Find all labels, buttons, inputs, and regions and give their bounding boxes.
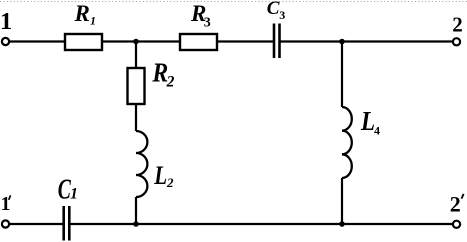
label 2' (450, 192, 461, 217)
label R3 (190, 1, 211, 31)
label L4 (360, 108, 380, 138)
wire (217, 40, 273, 42)
label C3 (267, 0, 286, 22)
svg-text:1: 1 (90, 14, 96, 28)
svg-text:3: 3 (204, 15, 211, 30)
svg-text:1: 1 (0, 8, 12, 35)
wire (10, 223, 64, 225)
terminal 1' (2, 220, 9, 227)
prime of 2' (462, 194, 464, 199)
svg-text:4: 4 (374, 124, 380, 138)
resistor R3 (180, 34, 217, 50)
inductor L2 (136, 131, 147, 197)
wire (135, 104, 137, 131)
node D (339, 221, 345, 227)
svg-text:L: L (153, 162, 167, 191)
label L2 (153, 162, 174, 191)
label C1 (58, 174, 78, 205)
svg-text:C: C (267, 0, 280, 19)
capacitor C1 (64, 206, 70, 241)
capacitor C3 (274, 24, 280, 59)
svg-text:1: 1 (1, 194, 11, 215)
terminal 1 (2, 38, 9, 45)
wire (341, 178, 343, 224)
svg-text:2: 2 (166, 73, 175, 90)
svg-text:R: R (74, 1, 90, 26)
inductor L4 (342, 107, 352, 178)
label R1 (74, 1, 97, 28)
resistor R2 (128, 68, 145, 104)
svg-text:2: 2 (452, 13, 463, 37)
wire (70, 223, 452, 225)
prime of 1' (9, 195, 11, 200)
resistor R1 (65, 34, 102, 50)
node B (339, 39, 345, 45)
terminal 2' (453, 221, 460, 228)
svg-text:1: 1 (70, 186, 78, 203)
svg-text:3: 3 (279, 8, 285, 22)
wire (135, 197, 137, 224)
svg-text:L: L (360, 108, 375, 137)
node C (133, 221, 139, 227)
terminal 2 (453, 38, 460, 45)
wire (135, 42, 137, 69)
wire (341, 42, 343, 108)
node A (133, 39, 139, 45)
svg-text:2: 2 (166, 175, 174, 190)
svg-text:2: 2 (450, 192, 461, 217)
wire (102, 40, 180, 42)
label 1' (1, 194, 11, 215)
wire (10, 40, 66, 42)
wire (281, 40, 453, 42)
label R2 (151, 57, 174, 90)
